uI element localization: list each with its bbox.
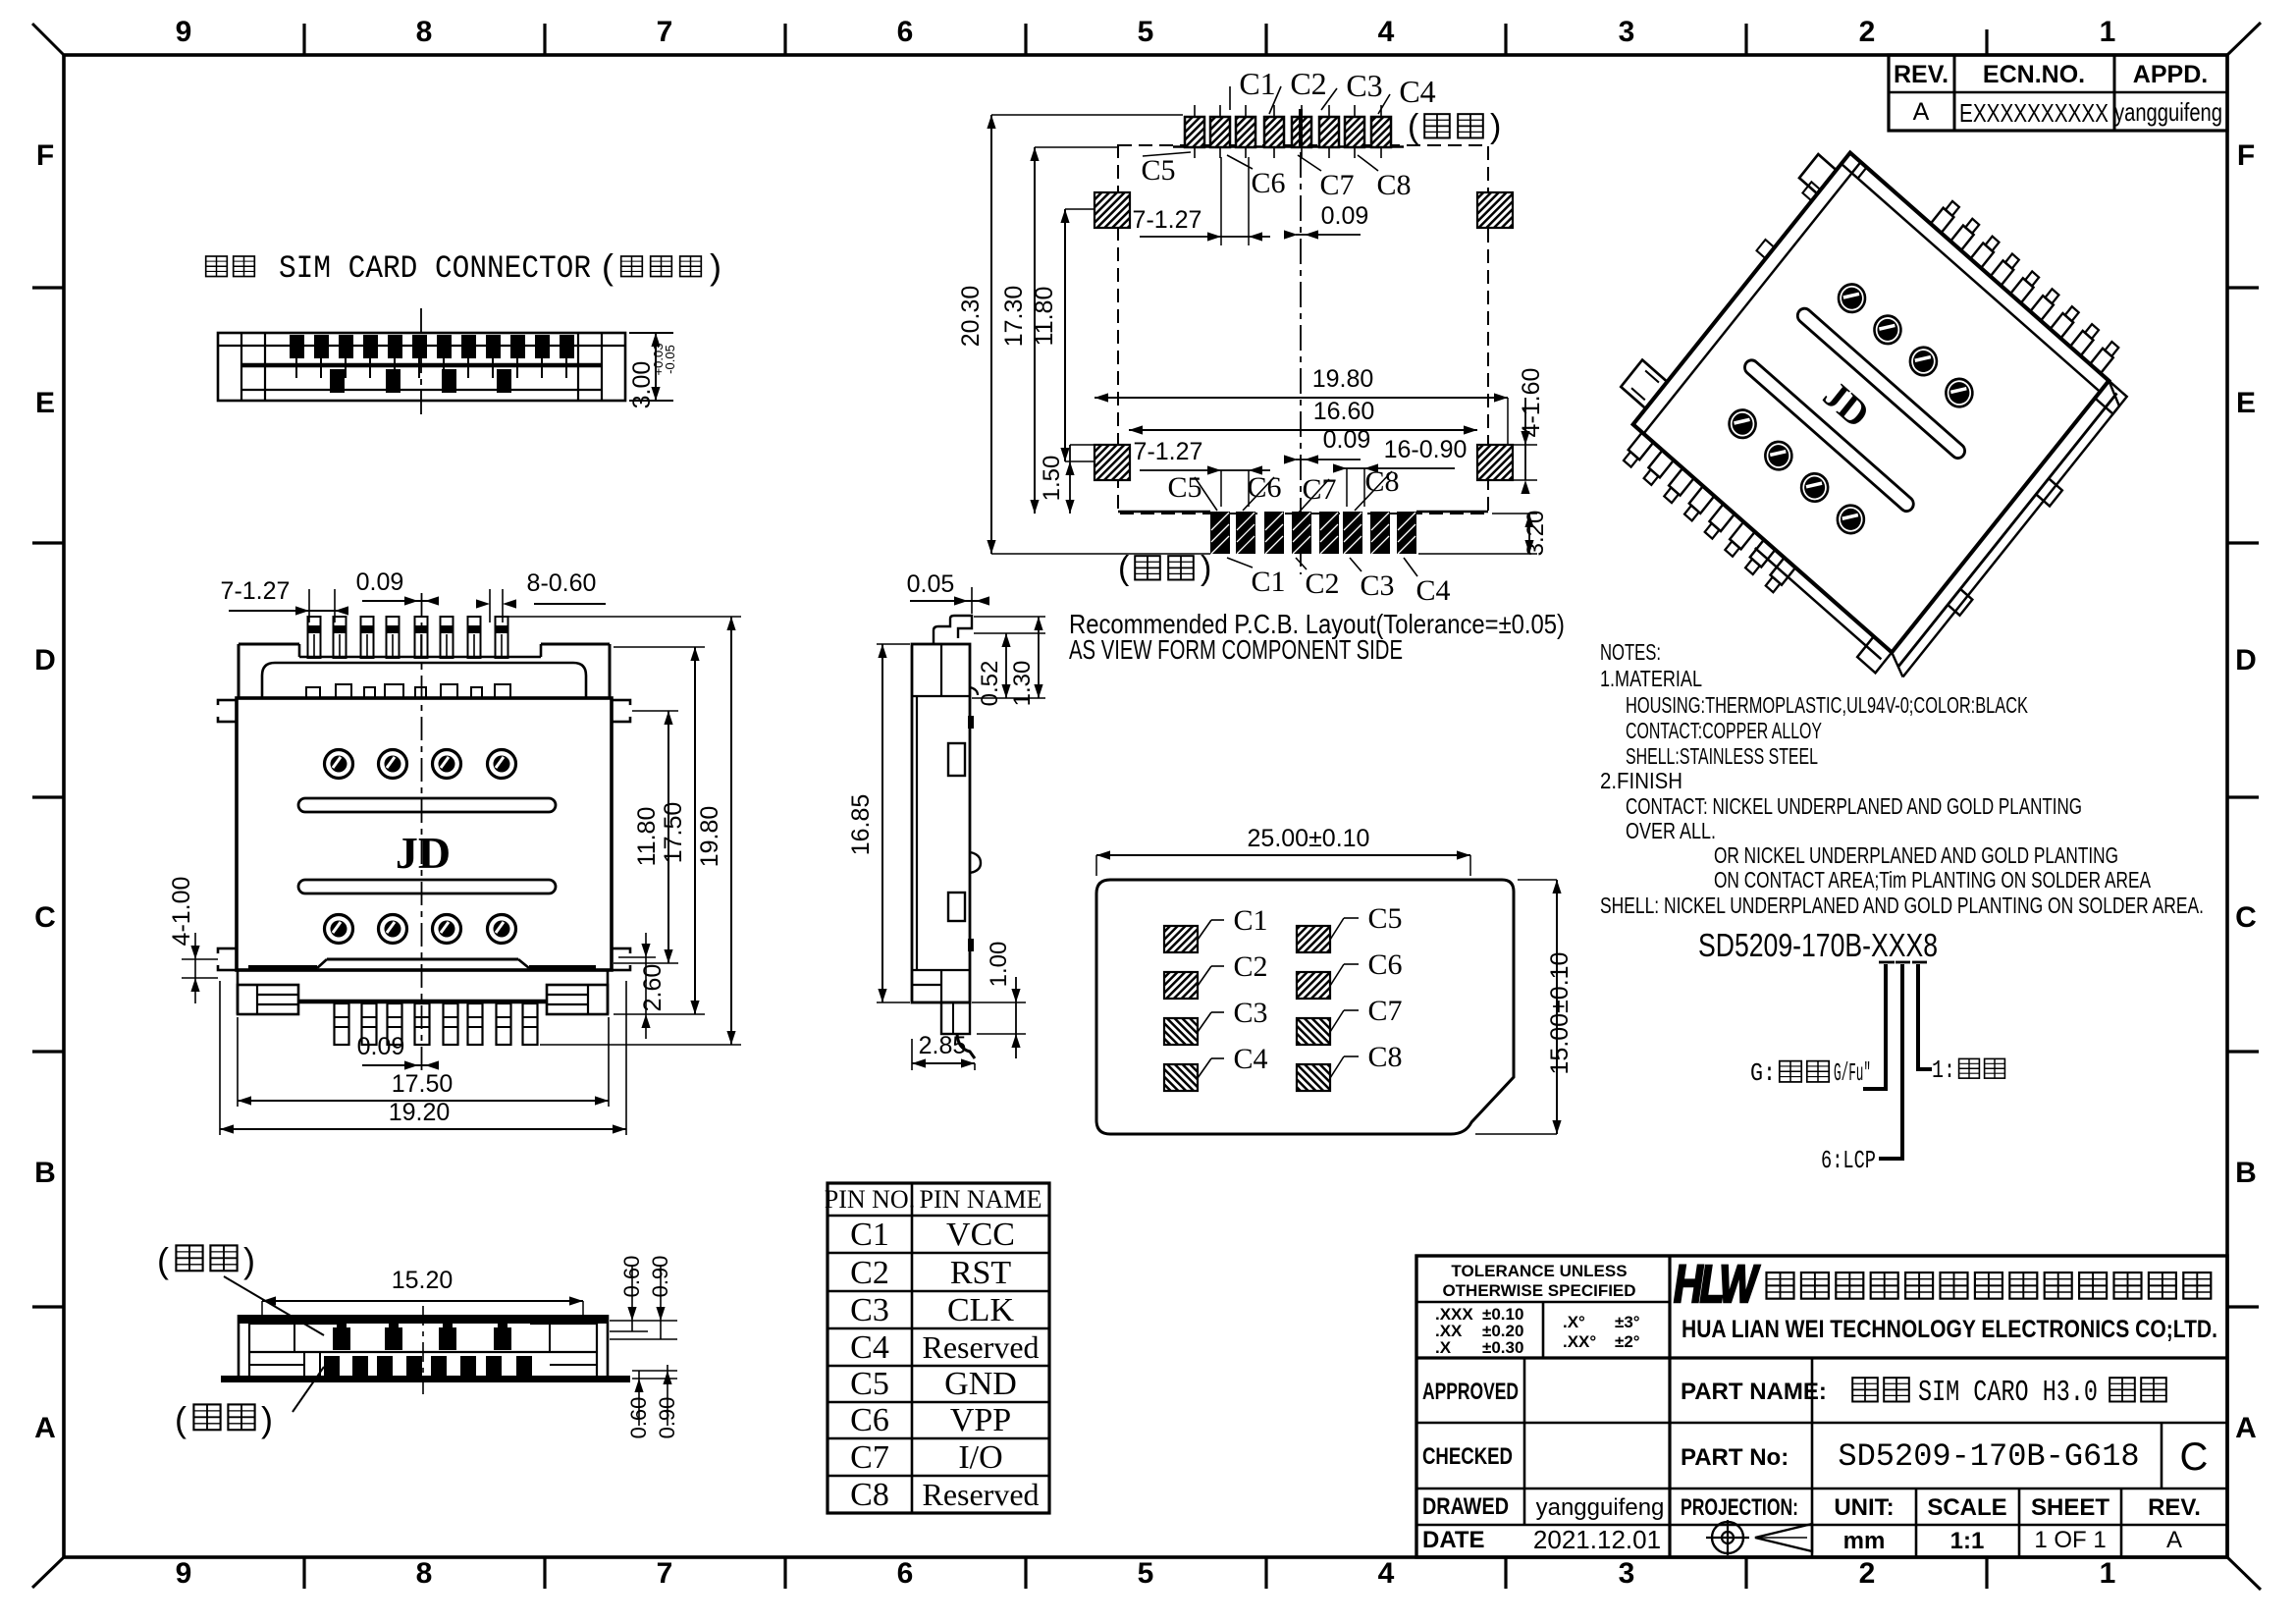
svg-text:1.50: 1.50	[1039, 456, 1065, 502]
grid row labels left	[34, 139, 56, 1444]
pin assignment table	[825, 1183, 1049, 1513]
svg-text:C8: C8	[850, 1477, 889, 1513]
svg-text:PROJECTION:: PROJECTION:	[1681, 1494, 1798, 1521]
svg-text:SHELL:STAINLESS STEEL: SHELL:STAINLESS STEEL	[1626, 743, 1818, 769]
svg-text:CONTACT: NICKEL UNDERPLANED AN: CONTACT: NICKEL UNDERPLANED AND GOLD PLA…	[1626, 793, 2082, 819]
code option 1 label	[1916, 1056, 2004, 1085]
svg-text:SD5209-170B-XXX8: SD5209-170B-XXX8	[1698, 927, 1938, 963]
stacked view right dimensions bottom	[626, 1365, 679, 1438]
pcb layout lower layer label	[1118, 550, 1211, 587]
svg-text:): )	[1490, 108, 1501, 145]
svg-text:mm: mm	[1843, 1528, 1886, 1554]
pcb layout caption	[1069, 609, 1565, 665]
svg-text:8-0.60: 8-0.60	[527, 569, 597, 597]
side view right features	[948, 687, 981, 951]
pcb layout dimension 19.80	[1095, 365, 1508, 445]
stacked view right dimensions top	[610, 1256, 677, 1339]
svg-text:D: D	[2235, 644, 2257, 677]
svg-text:RST: RST	[950, 1255, 1012, 1291]
grid row labels right	[2235, 139, 2257, 1444]
svg-text:2.85: 2.85	[919, 1032, 967, 1059]
checked row label	[1422, 1443, 1513, 1470]
front view dimension 11.80	[633, 711, 673, 963]
svg-text:19.80: 19.80	[696, 806, 723, 868]
svg-text:C3: C3	[1233, 997, 1267, 1029]
svg-text:SIM CARD CONNECTOR: SIM CARD CONNECTOR	[279, 250, 591, 287]
front view top contact pins	[308, 617, 508, 658]
stacked view inner walls	[249, 1324, 597, 1376]
svg-text:6: 6	[897, 16, 914, 48]
svg-text:yangguifeng: yangguifeng	[2114, 97, 2222, 127]
front view bottom shell blocks	[238, 970, 608, 1014]
svg-text:0.52: 0.52	[977, 661, 1003, 707]
svg-text:±0.30: ±0.30	[1482, 1338, 1523, 1357]
svg-text:C6: C6	[1251, 167, 1285, 199]
company name english	[1682, 1316, 2217, 1343]
svg-text:): )	[1201, 550, 1211, 587]
svg-text:2.FINISH: 2.FINISH	[1600, 768, 1682, 793]
svg-text:5: 5	[1138, 16, 1154, 48]
svg-text:C4: C4	[1399, 74, 1435, 109]
svg-text:REV.: REV.	[1894, 61, 1949, 88]
svg-text:CONTACT:COPPER ALLOY: CONTACT:COPPER ALLOY	[1626, 718, 1822, 743]
projection unit scale sheet rev labels	[1681, 1494, 2201, 1554]
svg-text:6: 6	[897, 1557, 914, 1590]
svg-text:C6: C6	[1367, 948, 1402, 981]
pcb layout dimension 7-1.27 bottom	[1134, 438, 1270, 507]
company name chinese	[1767, 1272, 2212, 1299]
svg-text:G:: G:	[1750, 1058, 1776, 1088]
svg-text:3: 3	[1619, 16, 1635, 48]
svg-text:5: 5	[1138, 1557, 1154, 1590]
svg-text:4: 4	[1378, 1557, 1395, 1590]
svg-text:C6: C6	[850, 1402, 889, 1438]
svg-text:B: B	[34, 1157, 56, 1189]
svg-text:20.30: 20.30	[957, 286, 985, 348]
pcb layout bottom labels C1-C4	[1227, 558, 1451, 607]
pcb layout left dimensions	[957, 115, 1210, 554]
svg-text:C7: C7	[1319, 169, 1354, 201]
side view bottom foot	[941, 1002, 975, 1058]
section view bottom pins	[330, 369, 511, 393]
svg-text:19.80: 19.80	[1312, 365, 1374, 393]
svg-text:1 OF 1: 1 OF 1	[2034, 1527, 2106, 1553]
svg-text:): )	[261, 1399, 273, 1439]
svg-text:C1: C1	[1239, 66, 1275, 101]
svg-text:1: 1	[2100, 16, 2116, 48]
stacked view upper layer label	[157, 1240, 324, 1335]
svg-text:A: A	[2166, 1527, 2182, 1553]
front view dimension 17.50 bottom	[238, 1017, 609, 1107]
approved row label	[1422, 1379, 1519, 1405]
svg-text:C4: C4	[850, 1329, 889, 1366]
side view dimension 16.85	[847, 644, 910, 1002]
company logo HLW	[1674, 1255, 1760, 1314]
svg-text:0.90: 0.90	[648, 1256, 672, 1298]
svg-text:0.05: 0.05	[907, 570, 955, 598]
stacked view lower contacts	[324, 1356, 532, 1377]
svg-text:1.00: 1.00	[986, 942, 1012, 988]
svg-text:CLK: CLK	[947, 1292, 1014, 1328]
svg-text:C4: C4	[1415, 574, 1450, 607]
front view JD marking	[396, 828, 451, 878]
svg-text:UNIT:: UNIT:	[1834, 1494, 1894, 1521]
svg-text:25.00±0.10: 25.00±0.10	[1248, 825, 1370, 852]
svg-text:SHEET: SHEET	[2031, 1494, 2109, 1521]
pcb layout dashed outline	[1118, 109, 1488, 574]
grid column labels bottom	[176, 1557, 2116, 1590]
svg-text:C4: C4	[1233, 1043, 1267, 1075]
svg-text:7: 7	[657, 1557, 673, 1590]
grid column ticks top	[304, 24, 1987, 55]
date row label	[1422, 1525, 1661, 1554]
front view dimension 7-1.27 top	[221, 577, 348, 623]
svg-text:(: (	[1118, 550, 1130, 587]
sim card dimension 25.00	[1096, 825, 1470, 876]
svg-text:C5: C5	[1141, 154, 1175, 187]
svg-text:HOUSING:THERMOPLASTIC,UL94V-0;: HOUSING:THERMOPLASTIC,UL94V-0;COLOR:BLAC…	[1626, 692, 2028, 718]
svg-text:DATE: DATE	[1422, 1527, 1485, 1553]
svg-text:7-1.27: 7-1.27	[1134, 438, 1203, 465]
svg-text:2: 2	[1859, 16, 1876, 48]
notes text block	[1600, 639, 2204, 918]
svg-text:1: 1	[2100, 1557, 2116, 1590]
svg-text:A: A	[1913, 98, 1930, 126]
svg-text:C1: C1	[850, 1217, 889, 1253]
side view body outline	[912, 644, 970, 1002]
svg-text:C3: C3	[850, 1292, 889, 1328]
svg-text:OR NICKEL UNDERPLANED AND GOLD: OR NICKEL UNDERPLANED AND GOLD PLANTING	[1714, 842, 2118, 868]
front view card slot openings	[298, 798, 556, 893]
svg-text:yangguifeng: yangguifeng	[1536, 1494, 1665, 1521]
svg-text:2: 2	[1859, 1557, 1876, 1590]
svg-text:C7: C7	[850, 1439, 889, 1476]
svg-text:OTHERWISE SPECIFIED: OTHERWISE SPECIFIED	[1442, 1281, 1635, 1300]
stacked view base plate	[221, 1376, 630, 1382]
pcb layout top pads C1-C8	[1173, 105, 1404, 158]
svg-text:1:: 1:	[1932, 1056, 1955, 1085]
sim card pad labels	[1198, 902, 1403, 1078]
svg-text:17.30: 17.30	[1000, 286, 1028, 348]
part no row	[1681, 1435, 2208, 1479]
section view centerline	[420, 308, 422, 417]
svg-text:C2: C2	[1233, 950, 1267, 983]
svg-text:GND: GND	[944, 1366, 1017, 1402]
side view dimension 0.05	[907, 570, 989, 614]
part name row	[1681, 1376, 2166, 1410]
front view dimension 19.80	[696, 617, 736, 1045]
svg-text:HUA LIAN WEI TECHNOLOGY ELECTR: HUA LIAN WEI TECHNOLOGY ELECTRONICS CO;L…	[1682, 1316, 2217, 1343]
svg-text:0.90: 0.90	[655, 1397, 679, 1439]
pcb layout dimension 0.09 top	[1284, 202, 1368, 240]
svg-text:C1: C1	[1233, 904, 1267, 937]
svg-text:AS VIEW FORM COMPONENT SIDE: AS VIEW FORM COMPONENT SIDE	[1069, 634, 1403, 665]
svg-text:JD: JD	[396, 828, 451, 878]
front view dimension 4-1.00	[168, 877, 218, 1003]
svg-text:HLW: HLW	[1674, 1255, 1760, 1314]
svg-text:2021.12.01: 2021.12.01	[1533, 1525, 1661, 1554]
svg-text:4: 4	[1378, 16, 1395, 48]
svg-text:C: C	[2180, 1435, 2209, 1479]
front view dimension 0.09 top	[356, 568, 439, 606]
svg-text:.X°: .X°	[1563, 1313, 1585, 1331]
svg-text:8: 8	[416, 16, 433, 48]
svg-text:PIN NAME: PIN NAME	[920, 1185, 1042, 1214]
svg-text:0.09: 0.09	[1321, 202, 1369, 230]
drawed row label	[1422, 1493, 1664, 1521]
svg-text:15.20: 15.20	[392, 1267, 454, 1294]
svg-text:9: 9	[176, 16, 192, 48]
svg-text:2.60: 2.60	[639, 964, 667, 1012]
svg-text:C: C	[2235, 901, 2257, 934]
front view bottom solder pins	[335, 1003, 538, 1045]
svg-text:DRAWED: DRAWED	[1422, 1493, 1509, 1520]
svg-text:(: (	[602, 246, 614, 287]
svg-text:APPD.: APPD.	[2133, 61, 2208, 88]
pcb layout dimension 16.60	[1129, 398, 1477, 435]
svg-text:OVER ALL.: OVER ALL.	[1626, 818, 1716, 843]
svg-text:C8: C8	[1376, 169, 1411, 201]
third angle projection symbol	[1706, 1520, 1812, 1555]
svg-text:EXXXXXXXXXX: EXXXXXXXXXX	[1959, 98, 2109, 128]
front view mounting ears	[212, 700, 636, 970]
sim card dimension 15.00	[1475, 880, 1574, 1134]
svg-text:0.09: 0.09	[357, 1033, 405, 1060]
svg-text:A: A	[34, 1412, 56, 1444]
svg-text:0.60: 0.60	[619, 1256, 644, 1298]
svg-text:CHECKED: CHECKED	[1422, 1443, 1513, 1470]
svg-text:3.20: 3.20	[1522, 511, 1549, 557]
svg-text:REV.: REV.	[2148, 1494, 2201, 1521]
svg-text:3: 3	[1619, 1557, 1635, 1590]
side view dimension 2.85	[912, 1032, 975, 1070]
svg-text:C5: C5	[1167, 471, 1201, 504]
pcb layout upper layer label	[1408, 108, 1501, 145]
front view dimension 19.20 bottom	[220, 981, 626, 1135]
svg-text:19.20: 19.20	[389, 1099, 451, 1126]
front view bottom edge	[248, 959, 596, 968]
front view dimension 8-0.60 top	[476, 569, 606, 623]
pcb layout dimension 16-0.90 middle	[1333, 436, 1467, 507]
svg-text:C5: C5	[850, 1366, 889, 1402]
svg-text:-0.05: -0.05	[663, 345, 677, 374]
stacked view lower layer label	[175, 1367, 324, 1439]
svg-text:SIM CARO H3.0: SIM CARO H3.0	[1918, 1376, 2098, 1410]
svg-text:PIN NO.: PIN NO.	[825, 1185, 915, 1214]
front view dimension 2.60	[639, 933, 667, 1039]
svg-text:1:1: 1:1	[1950, 1528, 1985, 1554]
drawing title text	[206, 246, 721, 287]
svg-text:SCALE: SCALE	[1927, 1494, 2006, 1521]
front view centerline	[421, 593, 423, 1075]
svg-text:16.85: 16.85	[847, 794, 875, 856]
svg-text:.XX°: .XX°	[1563, 1332, 1596, 1351]
svg-text:(: (	[1408, 108, 1419, 145]
svg-text:B: B	[2235, 1157, 2257, 1189]
svg-text:): )	[243, 1240, 255, 1280]
code option 6 label	[1821, 1146, 1904, 1175]
svg-text:15.00±0.10: 15.00±0.10	[1546, 952, 1574, 1075]
svg-text:C5: C5	[1367, 902, 1402, 935]
svg-text:F: F	[36, 139, 54, 172]
pcb layout dimension 4-1.60	[1513, 368, 1545, 494]
svg-text:0.60: 0.60	[626, 1397, 651, 1439]
side view dimension 1.00	[972, 942, 1026, 1058]
svg-text:Reserved: Reserved	[922, 1477, 1039, 1512]
svg-text:11.80: 11.80	[633, 807, 661, 867]
svg-text:7: 7	[657, 16, 673, 48]
svg-text:(: (	[175, 1399, 187, 1439]
pcb layout bottom pad leader labels C5-C8	[1167, 465, 1399, 514]
svg-text:F: F	[2237, 139, 2255, 172]
front view right extension lines	[507, 617, 741, 1045]
part number code with leaders	[1698, 927, 1938, 1159]
svg-text:APPROVED: APPROVED	[1422, 1379, 1519, 1405]
svg-text:ECN.NO.: ECN.NO.	[1983, 61, 2085, 88]
svg-text:7-1.27: 7-1.27	[1133, 206, 1202, 234]
svg-text:16-0.90: 16-0.90	[1384, 436, 1468, 463]
svg-text:11.80: 11.80	[1031, 287, 1058, 347]
grid row ticks left	[32, 288, 64, 1307]
svg-text:VPP: VPP	[950, 1402, 1011, 1438]
svg-text:0.09: 0.09	[356, 568, 404, 596]
grid column labels top	[176, 16, 2116, 48]
svg-text:SHELL: NICKEL UNDERPLANED AND: SHELL: NICKEL UNDERPLANED AND GOLD PLANT…	[1600, 893, 2204, 918]
svg-text:C7: C7	[1367, 995, 1402, 1027]
svg-text:C3: C3	[1346, 68, 1382, 103]
isometric view of connector	[1587, 106, 2153, 699]
svg-text:17.50: 17.50	[660, 802, 687, 864]
sim card outline	[1096, 880, 1514, 1134]
svg-text:9: 9	[176, 1557, 192, 1590]
section view height dimension 3.00	[628, 333, 677, 408]
pcb layout dimension 3.20	[1418, 511, 1549, 557]
svg-text:C: C	[34, 901, 56, 934]
front view dimension 0.09 bottom	[357, 1033, 439, 1070]
stacked view centerline	[422, 1306, 424, 1394]
svg-text:C2: C2	[1290, 66, 1326, 101]
svg-text:Reserved: Reserved	[922, 1329, 1039, 1365]
svg-text:NOTES:: NOTES:	[1600, 639, 1661, 665]
svg-text:D: D	[34, 644, 56, 677]
stacked view dimension 15.20	[262, 1267, 583, 1317]
svg-text:8: 8	[416, 1557, 433, 1590]
sim card pads	[1164, 926, 1330, 1091]
svg-text:VCC: VCC	[946, 1217, 1015, 1253]
svg-text:1.MATERIAL: 1.MATERIAL	[1600, 666, 1702, 691]
svg-text:.X: .X	[1435, 1338, 1452, 1357]
section view top assembly	[218, 333, 625, 401]
svg-text:I/O: I/O	[958, 1439, 1002, 1476]
svg-text:4-1.60: 4-1.60	[1518, 368, 1545, 438]
svg-text:7-1.27: 7-1.27	[221, 577, 291, 605]
svg-text:17.50: 17.50	[392, 1070, 454, 1098]
svg-text:TOLERANCE UNLESS: TOLERANCE UNLESS	[1451, 1262, 1627, 1280]
svg-text:G/Fu": G/Fu"	[1834, 1058, 1871, 1088]
grid row ticks right	[2227, 288, 2259, 1307]
tolerance box text	[1435, 1262, 1640, 1357]
svg-text:4-1.00: 4-1.00	[168, 877, 195, 947]
pcb layout dimension 0.09 middle	[1284, 426, 1370, 464]
svg-text:6:LCP: 6:LCP	[1821, 1146, 1876, 1175]
svg-text:E: E	[2236, 387, 2256, 419]
side view dimensions 0.52 and 1.30	[972, 617, 1045, 706]
svg-text:16.60: 16.60	[1313, 398, 1375, 425]
side view top hook tab	[934, 616, 972, 644]
pcb layout bottom pads C1-C8	[1118, 512, 1488, 554]
svg-text:PART No:: PART No:	[1681, 1444, 1789, 1471]
pcb layout corner pads	[1095, 192, 1513, 480]
svg-text:1.30: 1.30	[1009, 661, 1036, 707]
pcb layout dimension 7-1.27 top	[1133, 157, 1270, 245]
svg-text:C2: C2	[850, 1255, 889, 1291]
title block table	[1416, 1256, 2227, 1557]
grid column ticks bottom	[304, 1557, 1987, 1589]
svg-text:C2: C2	[1305, 568, 1339, 600]
svg-text:E: E	[35, 387, 55, 419]
revision table	[1889, 55, 2227, 131]
stacked view top plate	[239, 1315, 608, 1382]
svg-text:): )	[710, 246, 721, 287]
front view top shell bumps	[306, 684, 510, 698]
front view main body shell	[237, 698, 612, 970]
svg-text:C3: C3	[1360, 569, 1394, 602]
front view contact dimples	[325, 750, 516, 944]
svg-text:±3°: ±3°	[1615, 1313, 1640, 1331]
section view top pin row	[290, 335, 574, 378]
svg-text:A: A	[2235, 1412, 2257, 1444]
front view top shell	[239, 644, 610, 698]
svg-text:C1: C1	[1251, 566, 1285, 598]
pcb layout top pad labels	[1141, 66, 1435, 201]
front view dimension 17.50 vertical	[660, 647, 700, 1014]
svg-text:(: (	[157, 1240, 169, 1280]
stacked view upper contacts	[333, 1318, 511, 1350]
svg-text:SD5209-170B-G618: SD5209-170B-G618	[1838, 1438, 2139, 1475]
svg-text:±2°: ±2°	[1615, 1332, 1640, 1351]
svg-text:0.09: 0.09	[1323, 426, 1371, 454]
code option G label	[1750, 1058, 1888, 1089]
svg-text:PART NAME:: PART NAME:	[1681, 1379, 1827, 1405]
svg-text:C8: C8	[1367, 1041, 1402, 1073]
svg-text:ON CONTACT AREA;Tim PLANTING O: ON CONTACT AREA;Tim PLANTING ON SOLDER A…	[1714, 867, 2151, 893]
